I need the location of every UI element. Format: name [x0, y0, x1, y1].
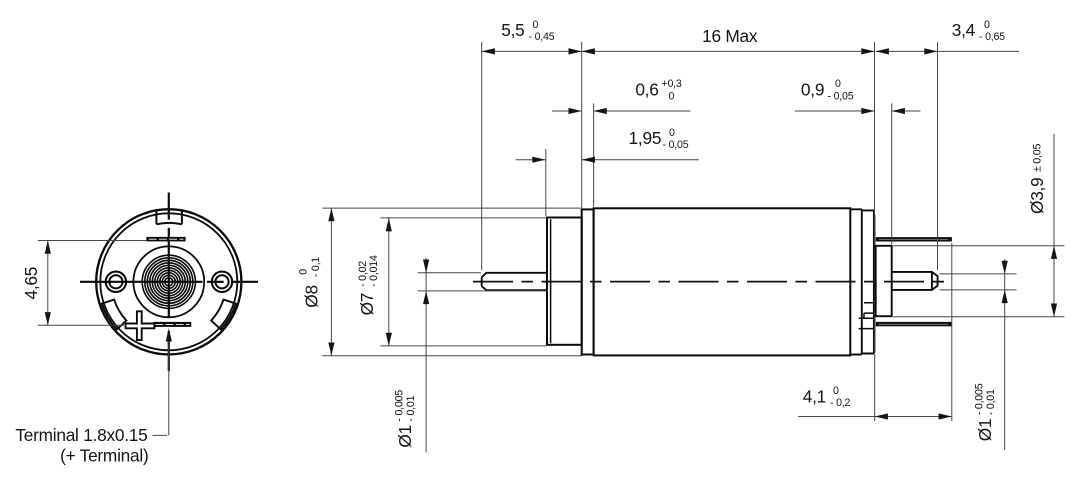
svg-text:- 0,1: - 0,1	[310, 257, 322, 278]
svg-text:Ø8: Ø8	[302, 285, 322, 308]
end view outer circle	[96, 209, 241, 354]
right screw hole	[212, 272, 232, 292]
spring washer rings	[142, 255, 195, 308]
cap face shading	[874, 215, 876, 353]
top key notch	[156, 210, 182, 224]
dimension 4,65 extension lines	[38, 241, 146, 326]
svg-text:0: 0	[669, 91, 675, 103]
svg-text:+0,3: +0,3	[662, 78, 682, 90]
dimension 0,9 lines	[795, 110, 921, 112]
svg-text:Ø3,9: Ø3,9	[1027, 178, 1047, 214]
svg-text:± 0,05: ± 0,05	[1032, 144, 1044, 172]
motor body	[594, 208, 851, 355]
svg-text:- 0,014: - 0,014	[368, 255, 380, 287]
svg-text:0: 0	[833, 385, 839, 397]
svg-text:16 Max: 16 Max	[702, 26, 758, 46]
crosshair horizontal centerline	[80, 281, 258, 283]
terminal leader line	[153, 341, 169, 435]
dimension 0,6 lines	[552, 110, 690, 112]
svg-text:- 0,005: - 0,005	[394, 390, 406, 422]
dimension 16 Max line	[582, 50, 875, 52]
svg-text:- 0,45: - 0,45	[529, 31, 555, 43]
svg-text:0: 0	[835, 78, 841, 90]
dimension dia7 text	[357, 255, 380, 315]
bottom terminal bar	[153, 322, 191, 327]
top terminal bar	[146, 237, 185, 242]
lower-left vent slot	[102, 300, 127, 330]
extension lines horizontal	[322, 208, 1064, 356]
dimension dia8 text	[298, 257, 323, 308]
svg-text:- 0,01: - 0,01	[405, 395, 417, 421]
svg-text:- 0,2: - 0,2	[830, 397, 851, 409]
dimension 5,5 line	[482, 50, 582, 52]
svg-text:0: 0	[984, 19, 990, 31]
right shaft	[892, 272, 938, 290]
collar ring	[582, 209, 594, 354]
svg-text:4,1: 4,1	[803, 386, 826, 406]
svg-text:0: 0	[669, 127, 675, 139]
plus marker (+ terminal)	[126, 311, 155, 340]
dimension 4,65 arrows	[45, 241, 51, 254]
svg-text:0,6: 0,6	[635, 80, 658, 100]
svg-text:0: 0	[533, 19, 539, 31]
svg-text:5,5: 5,5	[501, 20, 524, 40]
flange face inner line	[550, 219, 552, 343]
svg-text:0,9: 0,9	[801, 80, 824, 100]
svg-text:4,65: 4,65	[21, 267, 41, 300]
bearing boss circle	[133, 246, 204, 317]
svg-text:- 0,05: - 0,05	[663, 139, 689, 151]
end cap	[862, 210, 874, 353]
dimension dia1 right line	[1004, 259, 1006, 450]
svg-text:- 0,05: - 0,05	[828, 91, 854, 103]
svg-text:Terminal 1.8x0.15: Terminal 1.8x0.15	[15, 425, 147, 445]
end ring segment	[850, 209, 862, 354]
svg-text:(+ Terminal): (+ Terminal)	[60, 445, 148, 465]
dimension 1,95 lines	[516, 159, 699, 161]
extension lines vertical	[482, 42, 952, 421]
top terminal pin	[876, 237, 952, 241]
svg-text:3,4: 3,4	[952, 20, 976, 40]
svg-text:Ø7: Ø7	[357, 293, 377, 316]
dimension dia3,9 text	[1027, 144, 1047, 214]
bottom terminal pin	[876, 322, 952, 326]
svg-text:1,95: 1,95	[629, 128, 662, 148]
crosshair vertical centerline	[168, 193, 170, 372]
terminal leader arrow	[166, 328, 172, 341]
end view inner rim circle	[100, 213, 237, 350]
front flange	[547, 218, 582, 345]
cap bottom steps	[859, 303, 874, 329]
side view centerline	[473, 281, 951, 283]
dimension dia1 left text	[394, 390, 418, 448]
svg-text:Ø1: Ø1	[975, 419, 995, 442]
svg-text:- 0,005: - 0,005	[974, 383, 986, 415]
svg-text:- 0,01: - 0,01	[985, 389, 997, 415]
dimension dia7 line	[388, 218, 390, 346]
svg-text:0: 0	[298, 269, 310, 275]
left screw hole	[106, 272, 126, 292]
dimension dia1 left line	[425, 258, 427, 452]
dimension dia1 right text	[974, 383, 998, 441]
dimension 3,4 line	[876, 50, 1019, 52]
svg-text:Ø1: Ø1	[395, 425, 415, 448]
left shaft	[482, 273, 547, 290]
brush cover block	[876, 246, 892, 316]
dimension dia8 line	[330, 208, 332, 356]
lower-right vent slot	[211, 300, 236, 330]
dimension 4,65 line	[47, 241, 49, 326]
dimension 4,1 line	[798, 416, 952, 418]
dimension 4,65 text	[21, 267, 41, 300]
dimension dia3,9 line	[1053, 134, 1055, 317]
svg-text:- 0,65: - 0,65	[979, 31, 1005, 43]
